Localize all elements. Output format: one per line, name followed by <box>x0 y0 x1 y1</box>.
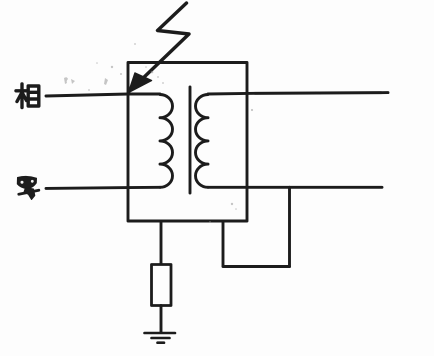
wire: bond up to neutral output <box>288 187 291 266</box>
wire: bond bottom run <box>223 265 290 268</box>
label 相 (phase) <box>16 84 39 108</box>
wire: secondary top output <box>208 93 388 94</box>
ground symbol <box>145 333 176 343</box>
wire: resistor to ground <box>160 306 163 333</box>
transformer T primary winding <box>160 95 172 188</box>
wire: neutral input to primary bottom <box>46 187 160 188</box>
label 零 (neutral) <box>17 176 39 199</box>
wire: phase input to primary top <box>46 94 160 96</box>
wire: secondary bottom output <box>208 186 382 189</box>
transformer core <box>189 87 192 193</box>
lightning bolt surge arrow <box>129 3 190 93</box>
wire: enclosure bottom to resistor <box>160 221 163 264</box>
scan speckles <box>64 43 253 223</box>
junction: bond to neutral output wire <box>288 186 291 189</box>
transformer T secondary winding <box>196 95 209 188</box>
enclosure box <box>128 63 247 222</box>
wire: enclosure bond down <box>222 221 225 266</box>
resistor R (grounding) <box>152 265 172 306</box>
